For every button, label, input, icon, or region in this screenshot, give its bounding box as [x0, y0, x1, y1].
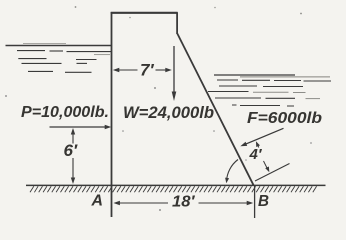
- svg-text:7′: 7′: [140, 61, 154, 80]
- svg-text:4′: 4′: [249, 146, 263, 163]
- svg-text:F=6000lb: F=6000lb: [247, 110, 323, 127]
- svg-text:B: B: [258, 193, 269, 210]
- svg-text:A: A: [91, 193, 103, 210]
- svg-text:18′: 18′: [172, 194, 196, 211]
- svg-text:P=10,000lb.: P=10,000lb.: [21, 104, 109, 121]
- svg-text:W=24,000lb: W=24,000lb: [123, 103, 214, 122]
- svg-text:6′: 6′: [64, 141, 78, 160]
